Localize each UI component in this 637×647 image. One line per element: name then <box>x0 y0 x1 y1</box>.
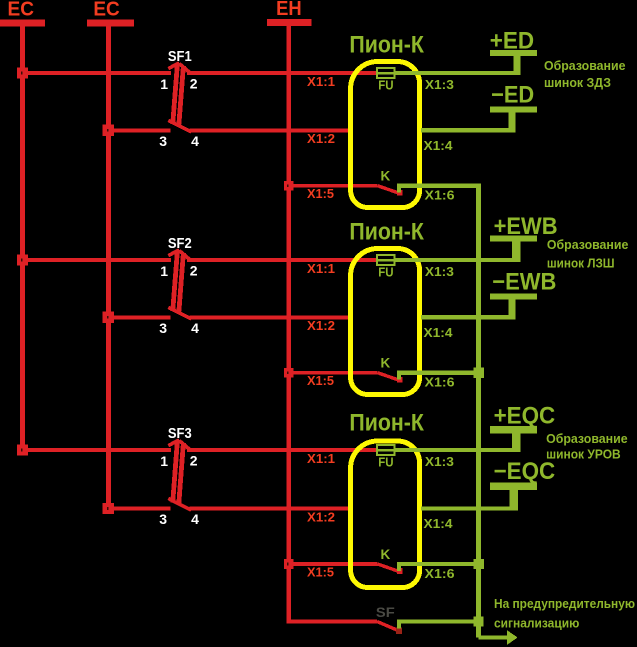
svg-text:X1:3: X1:3 <box>425 265 454 279</box>
svg-text:шинок УРОВ: шинок УРОВ <box>546 447 621 461</box>
node EC1 junction unit 1 row A <box>17 67 28 78</box>
svg-text:На предупредительную: На предупредительную <box>494 597 635 611</box>
wire fuse to plus bus +EWB <box>394 258 520 262</box>
svg-text:Пион-К: Пион-К <box>349 410 424 437</box>
wire EH to relay contact K unit 2 <box>289 371 378 375</box>
wire fuse to plus bus +EQC <box>394 448 520 452</box>
svg-text:2: 2 <box>190 75 198 91</box>
contact SF blade (signal) <box>377 622 398 631</box>
node EC2 junction unit 3 row B <box>103 503 114 514</box>
stub +EWB bar to wire <box>512 242 521 262</box>
fuse FU unit 1 <box>377 68 394 78</box>
wire bus EC1 vertical <box>20 27 25 456</box>
svg-text:Образование: Образование <box>544 59 626 73</box>
wire EC2 to breaker SF3 pin 3 <box>108 507 170 511</box>
bus bar −EWB <box>490 293 537 299</box>
wire contact K to X1:6 unit 3 <box>397 562 481 571</box>
svg-text:Пион-К: Пион-К <box>349 219 424 246</box>
wire bus EH vertical <box>286 26 290 624</box>
bus EC (battery plus) <box>0 0 45 27</box>
svg-text:Образование: Образование <box>546 432 628 446</box>
wire contact K to X1:6 unit 2 <box>397 371 481 380</box>
node EC2 junction unit 2 row B <box>103 312 114 323</box>
wire to annunciation arrow <box>479 635 508 639</box>
svg-text:FU: FU <box>378 77 393 92</box>
svg-text:1: 1 <box>160 263 168 279</box>
bus bar +ED <box>490 50 537 56</box>
wire contact K to X1:6 unit 1 <box>397 184 481 193</box>
relay contact K unit 3 blade <box>378 564 399 571</box>
svg-text:X1:4: X1:4 <box>424 517 453 531</box>
svg-text:шинок ЛЗШ: шинок ЛЗШ <box>547 257 615 271</box>
contact SF moving terminal <box>396 628 402 634</box>
node EH junction unit 1 row C <box>284 181 294 191</box>
wire EH to relay contact K unit 1 <box>289 184 378 188</box>
svg-text:SF1: SF1 <box>168 49 192 65</box>
bus bar −ED <box>490 107 537 113</box>
svg-text:3: 3 <box>159 511 167 527</box>
stub +ED bar to wire <box>514 56 521 75</box>
circuit breaker SF2 <box>168 236 192 319</box>
node EC2 junction unit 1 row B <box>103 125 114 136</box>
bus bar −EQC <box>490 483 537 490</box>
bus EC (battery minus) <box>87 0 134 27</box>
fuse FU unit 3 <box>377 445 394 455</box>
wire breaker SF2 pin 4 to X1:2 <box>190 315 353 319</box>
svg-text:SF2: SF2 <box>168 236 192 252</box>
wire breaker SF1 pin 2 to X1:1 <box>187 71 377 75</box>
svg-text:−EQC: −EQC <box>494 458 556 485</box>
svg-text:шинок ЗДЗ: шинок ЗДЗ <box>544 76 611 90</box>
bus EH <box>267 0 311 26</box>
svg-text:FU: FU <box>378 454 393 469</box>
node EH junction unit 2 row C <box>284 368 294 378</box>
circuit breaker SF3 <box>168 426 192 510</box>
node junction X1:6 collector unit 3 <box>474 559 484 569</box>
wire EC2 to breaker SF1 pin 3 <box>108 128 170 132</box>
svg-text:X1:2: X1:2 <box>307 319 335 333</box>
node EC1 junction unit 2 row A <box>17 254 28 265</box>
svg-text:X1:4: X1:4 <box>424 139 453 153</box>
svg-text:X1:6: X1:6 <box>425 567 455 581</box>
wire contact SF to collector junction <box>397 619 476 628</box>
wire EH to signal contact SF <box>286 620 377 624</box>
svg-text:X1:3: X1:3 <box>425 78 454 92</box>
wire EH to relay contact K unit 3 <box>289 562 378 566</box>
svg-text:FU: FU <box>378 264 393 279</box>
svg-text:EC: EC <box>8 0 35 21</box>
wire X1:4 to minus bus −EWB <box>421 315 516 319</box>
svg-text:+EQC: +EQC <box>494 402 556 429</box>
relay contact K unit 3 moving terminal <box>397 568 403 574</box>
wire fuse to plus bus +ED <box>394 71 520 75</box>
node EC1 junction unit 3 row A <box>17 444 28 455</box>
svg-text:Пион-К: Пион-К <box>349 32 424 59</box>
svg-text:X1:6: X1:6 <box>425 376 455 390</box>
wire X1:4 to minus bus −EQC <box>421 506 518 510</box>
svg-text:4: 4 <box>191 320 199 336</box>
node junction signal output <box>473 616 483 626</box>
wire breaker SF1 pin 4 to X1:2 <box>190 128 353 132</box>
svg-text:SF: SF <box>376 604 395 620</box>
stub −EWB bar to wire <box>508 300 515 320</box>
node EH junction unit 3 row C <box>284 559 294 569</box>
svg-text:K: K <box>381 356 391 371</box>
svg-text:сигнализацию: сигнализацию <box>494 616 580 630</box>
arrow to annunciation <box>507 630 518 645</box>
svg-text:X1:4: X1:4 <box>424 326 453 340</box>
bus bar +EQC <box>490 426 537 433</box>
svg-text:K: K <box>381 547 391 562</box>
svg-text:−ED: −ED <box>491 82 534 109</box>
wire breaker SF3 pin 2 to X1:1 <box>187 448 377 452</box>
block Пион-К unit 2 outline <box>351 249 420 395</box>
svg-text:K: K <box>381 169 391 184</box>
block Пион-К unit 1 outline <box>351 62 420 208</box>
wire EC to breaker SF1 pin 1 <box>23 71 172 75</box>
svg-text:EC: EC <box>93 0 119 21</box>
svg-text:3: 3 <box>159 320 167 336</box>
svg-text:X1:5: X1:5 <box>307 565 334 579</box>
stub −EQC bar to wire <box>510 490 519 511</box>
svg-text:X1:5: X1:5 <box>307 187 334 201</box>
wire EC to breaker SF2 pin 1 <box>23 258 172 262</box>
svg-text:2: 2 <box>190 262 198 278</box>
svg-text:X1:1: X1:1 <box>307 75 335 89</box>
wire breaker SF2 pin 2 to X1:1 <box>187 258 377 262</box>
relay contact K unit 1 moving terminal <box>397 190 403 196</box>
svg-text:4: 4 <box>191 511 199 527</box>
relay contact K unit 2 moving terminal <box>397 377 403 383</box>
svg-text:2: 2 <box>190 452 198 468</box>
bus bar +EWB <box>490 236 537 242</box>
wire breaker SF3 pin 4 to X1:2 <box>190 507 353 511</box>
svg-text:1: 1 <box>160 453 168 469</box>
svg-text:X1:5: X1:5 <box>307 374 334 388</box>
svg-text:EH: EH <box>276 0 302 20</box>
svg-text:1: 1 <box>160 76 168 92</box>
svg-text:SF3: SF3 <box>168 426 192 442</box>
svg-text:−EWB: −EWB <box>492 269 556 296</box>
circuit breaker SF1 <box>168 49 192 132</box>
node junction X1:6 collector unit 2 <box>474 368 484 378</box>
wire bus EC2 vertical <box>106 27 111 514</box>
wire EC to breaker SF3 pin 1 <box>23 448 172 452</box>
relay contact K unit 1 blade <box>378 186 399 193</box>
svg-text:X1:6: X1:6 <box>425 189 455 203</box>
relay contact K unit 2 blade <box>378 373 399 380</box>
svg-text:X1:3: X1:3 <box>425 455 454 469</box>
svg-text:X1:1: X1:1 <box>307 262 335 276</box>
stub −ED bar to wire <box>508 113 515 133</box>
svg-text:4: 4 <box>191 133 199 149</box>
svg-text:X1:2: X1:2 <box>307 510 335 524</box>
wire EC2 to breaker SF2 pin 3 <box>108 315 170 319</box>
wire X1:6 collector vertical <box>476 186 481 638</box>
svg-text:X1:2: X1:2 <box>307 132 335 146</box>
svg-text:X1:1: X1:1 <box>307 452 335 466</box>
svg-text:Образование: Образование <box>547 238 629 252</box>
wire X1:4 to minus bus −ED <box>421 128 516 132</box>
svg-text:3: 3 <box>159 133 167 149</box>
block Пион-К unit 3 outline <box>351 441 420 588</box>
fuse FU unit 2 <box>377 255 394 265</box>
stub +EQC bar to wire <box>512 433 521 452</box>
